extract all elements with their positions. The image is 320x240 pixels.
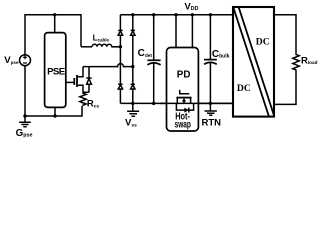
svg-text:RTN: RTN	[202, 118, 222, 129]
wire M1 drain to bridge with hop	[83, 64, 133, 67]
converter diagonal slash	[233, 7, 274, 116]
resistor R_load	[293, 54, 299, 71]
svg-text:Rcs: Rcs	[87, 99, 100, 110]
ground Gpse	[19, 116, 31, 127]
wire R_load bottom	[274, 71, 296, 105]
body diode loop of hot-swap	[176, 103, 193, 112]
hot-swap MOSFET body arrow	[182, 98, 186, 103]
junction dot	[174, 13, 177, 16]
hot-swap MOSFET channel bar	[176, 97, 191, 99]
wire PSE box bottom lead	[54, 107, 56, 116]
capacitor Cdet	[147, 15, 160, 104]
diode D2	[131, 15, 135, 67]
transistor M1 gate lead	[66, 81, 74, 83]
hot-swap MOSFET source stub	[190, 98, 192, 104]
svg-text:VDD: VDD	[185, 1, 199, 12]
wire bottom-left rail	[25, 106, 82, 116]
svg-text:PSE: PSE	[47, 67, 66, 78]
svg-text:PD: PD	[177, 69, 191, 80]
svg-text:Vpse: Vpse	[4, 55, 19, 66]
source Vpse	[20, 55, 31, 66]
wire Vpse bottom lead	[24, 66, 26, 116]
wire bottom rail	[120, 102, 233, 104]
svg-text:Lcable: Lcable	[93, 34, 110, 43]
hot-swap MOSFET drain stub	[176, 98, 178, 104]
junction dot	[131, 102, 134, 105]
svg-text:Cdet: Cdet	[138, 48, 153, 59]
svg-text:DC: DC	[237, 83, 251, 94]
svg-text:Rload: Rload	[301, 55, 318, 66]
junction dot node A	[53, 13, 56, 16]
junction dot	[191, 13, 194, 16]
junction dot	[131, 65, 134, 68]
PD interface box	[167, 48, 199, 132]
wire PSE box top lead	[54, 15, 56, 33]
hot-swap MOSFET gate	[180, 90, 190, 94]
junction dot	[53, 114, 56, 117]
diode D4	[131, 67, 135, 104]
svg-text:Vss: Vss	[125, 118, 137, 129]
label Hot-swap	[175, 110, 191, 130]
svg-text:DC: DC	[256, 37, 270, 48]
wire top-left rail	[25, 15, 81, 55]
junction dot	[23, 114, 26, 117]
ground Vss	[127, 103, 139, 116]
junction dot	[119, 45, 122, 48]
junction dot	[209, 102, 212, 105]
svg-text:Cbulk: Cbulk	[212, 49, 230, 60]
wire PD top lead 2	[191, 15, 193, 48]
transistor M1 channel bar	[76, 75, 78, 87]
PSE controller box	[45, 33, 66, 108]
svg-text:Gpse: Gpse	[16, 128, 33, 139]
DC-DC converter box	[233, 7, 274, 117]
inductor Lcable	[81, 44, 120, 47]
capacitor Cbulk	[204, 15, 217, 104]
wire R_load top	[274, 15, 296, 54]
ground RTN	[205, 103, 217, 115]
diode D1	[118, 15, 122, 47]
wire top rail	[120, 14, 233, 16]
diode D3	[118, 47, 122, 104]
junction dot	[209, 13, 212, 16]
resistor Rcs	[80, 92, 86, 106]
body diode of M1	[83, 67, 92, 93]
transistor M1 gate bar	[73, 78, 75, 85]
transistor M1 drain stub	[77, 67, 83, 77]
junction dot	[152, 102, 155, 105]
transistor M1 source stub	[77, 85, 83, 92]
wire PD top lead 1	[175, 15, 177, 48]
wire bottom rail through PD box	[160, 102, 233, 104]
svg-text:swap: swap	[175, 118, 191, 130]
junction dot	[152, 13, 155, 16]
junction dot	[131, 13, 134, 16]
